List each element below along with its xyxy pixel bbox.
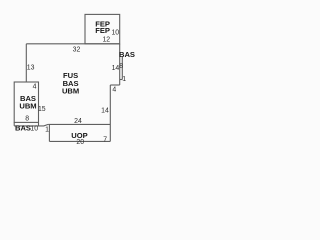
FEP box [85,14,120,43]
top edge [26,43,119,45]
svg-text:1: 1 [122,76,126,83]
building sketch [0,0,250,187]
UOP bottom [49,140,110,142]
svg-text:4: 4 [33,83,37,90]
svg-text:15: 15 [38,106,46,113]
svg-text:7: 7 [103,137,107,144]
svg-text:13: 13 [27,65,35,72]
svg-text:32: 32 [73,46,81,53]
svg-text:FEP: FEP [95,26,110,35]
left box BAS/UBM [14,82,38,122]
strip bottom [14,124,48,126]
svg-text:14: 14 [101,108,109,115]
svg-text:BAS: BAS [119,50,135,59]
svg-text:4: 4 [112,87,116,94]
right vertical lower (UOP right + 14 segment) [109,85,111,141]
svg-text:BAS: BAS [15,123,31,132]
svg-text:24: 24 [74,118,82,125]
UOP left [48,124,50,141]
sliver right edge B [121,57,123,80]
svg-text:UBM: UBM [19,102,36,111]
svg-text:12: 12 [102,37,110,44]
left edge [25,44,27,82]
svg-text:14: 14 [112,65,120,72]
svg-text:10: 10 [111,30,119,37]
step at right [110,84,119,86]
UOP top [48,123,110,125]
left box extensions down to strip [14,122,38,126]
svg-text:10: 10 [30,125,38,132]
right edge A [119,44,121,85]
svg-text:20: 20 [76,139,84,146]
svg-text:8: 8 [119,63,123,70]
svg-text:UBM: UBM [62,87,79,96]
svg-text:1: 1 [45,127,49,134]
svg-text:8: 8 [25,115,29,122]
sliver bottom connector [120,79,123,81]
